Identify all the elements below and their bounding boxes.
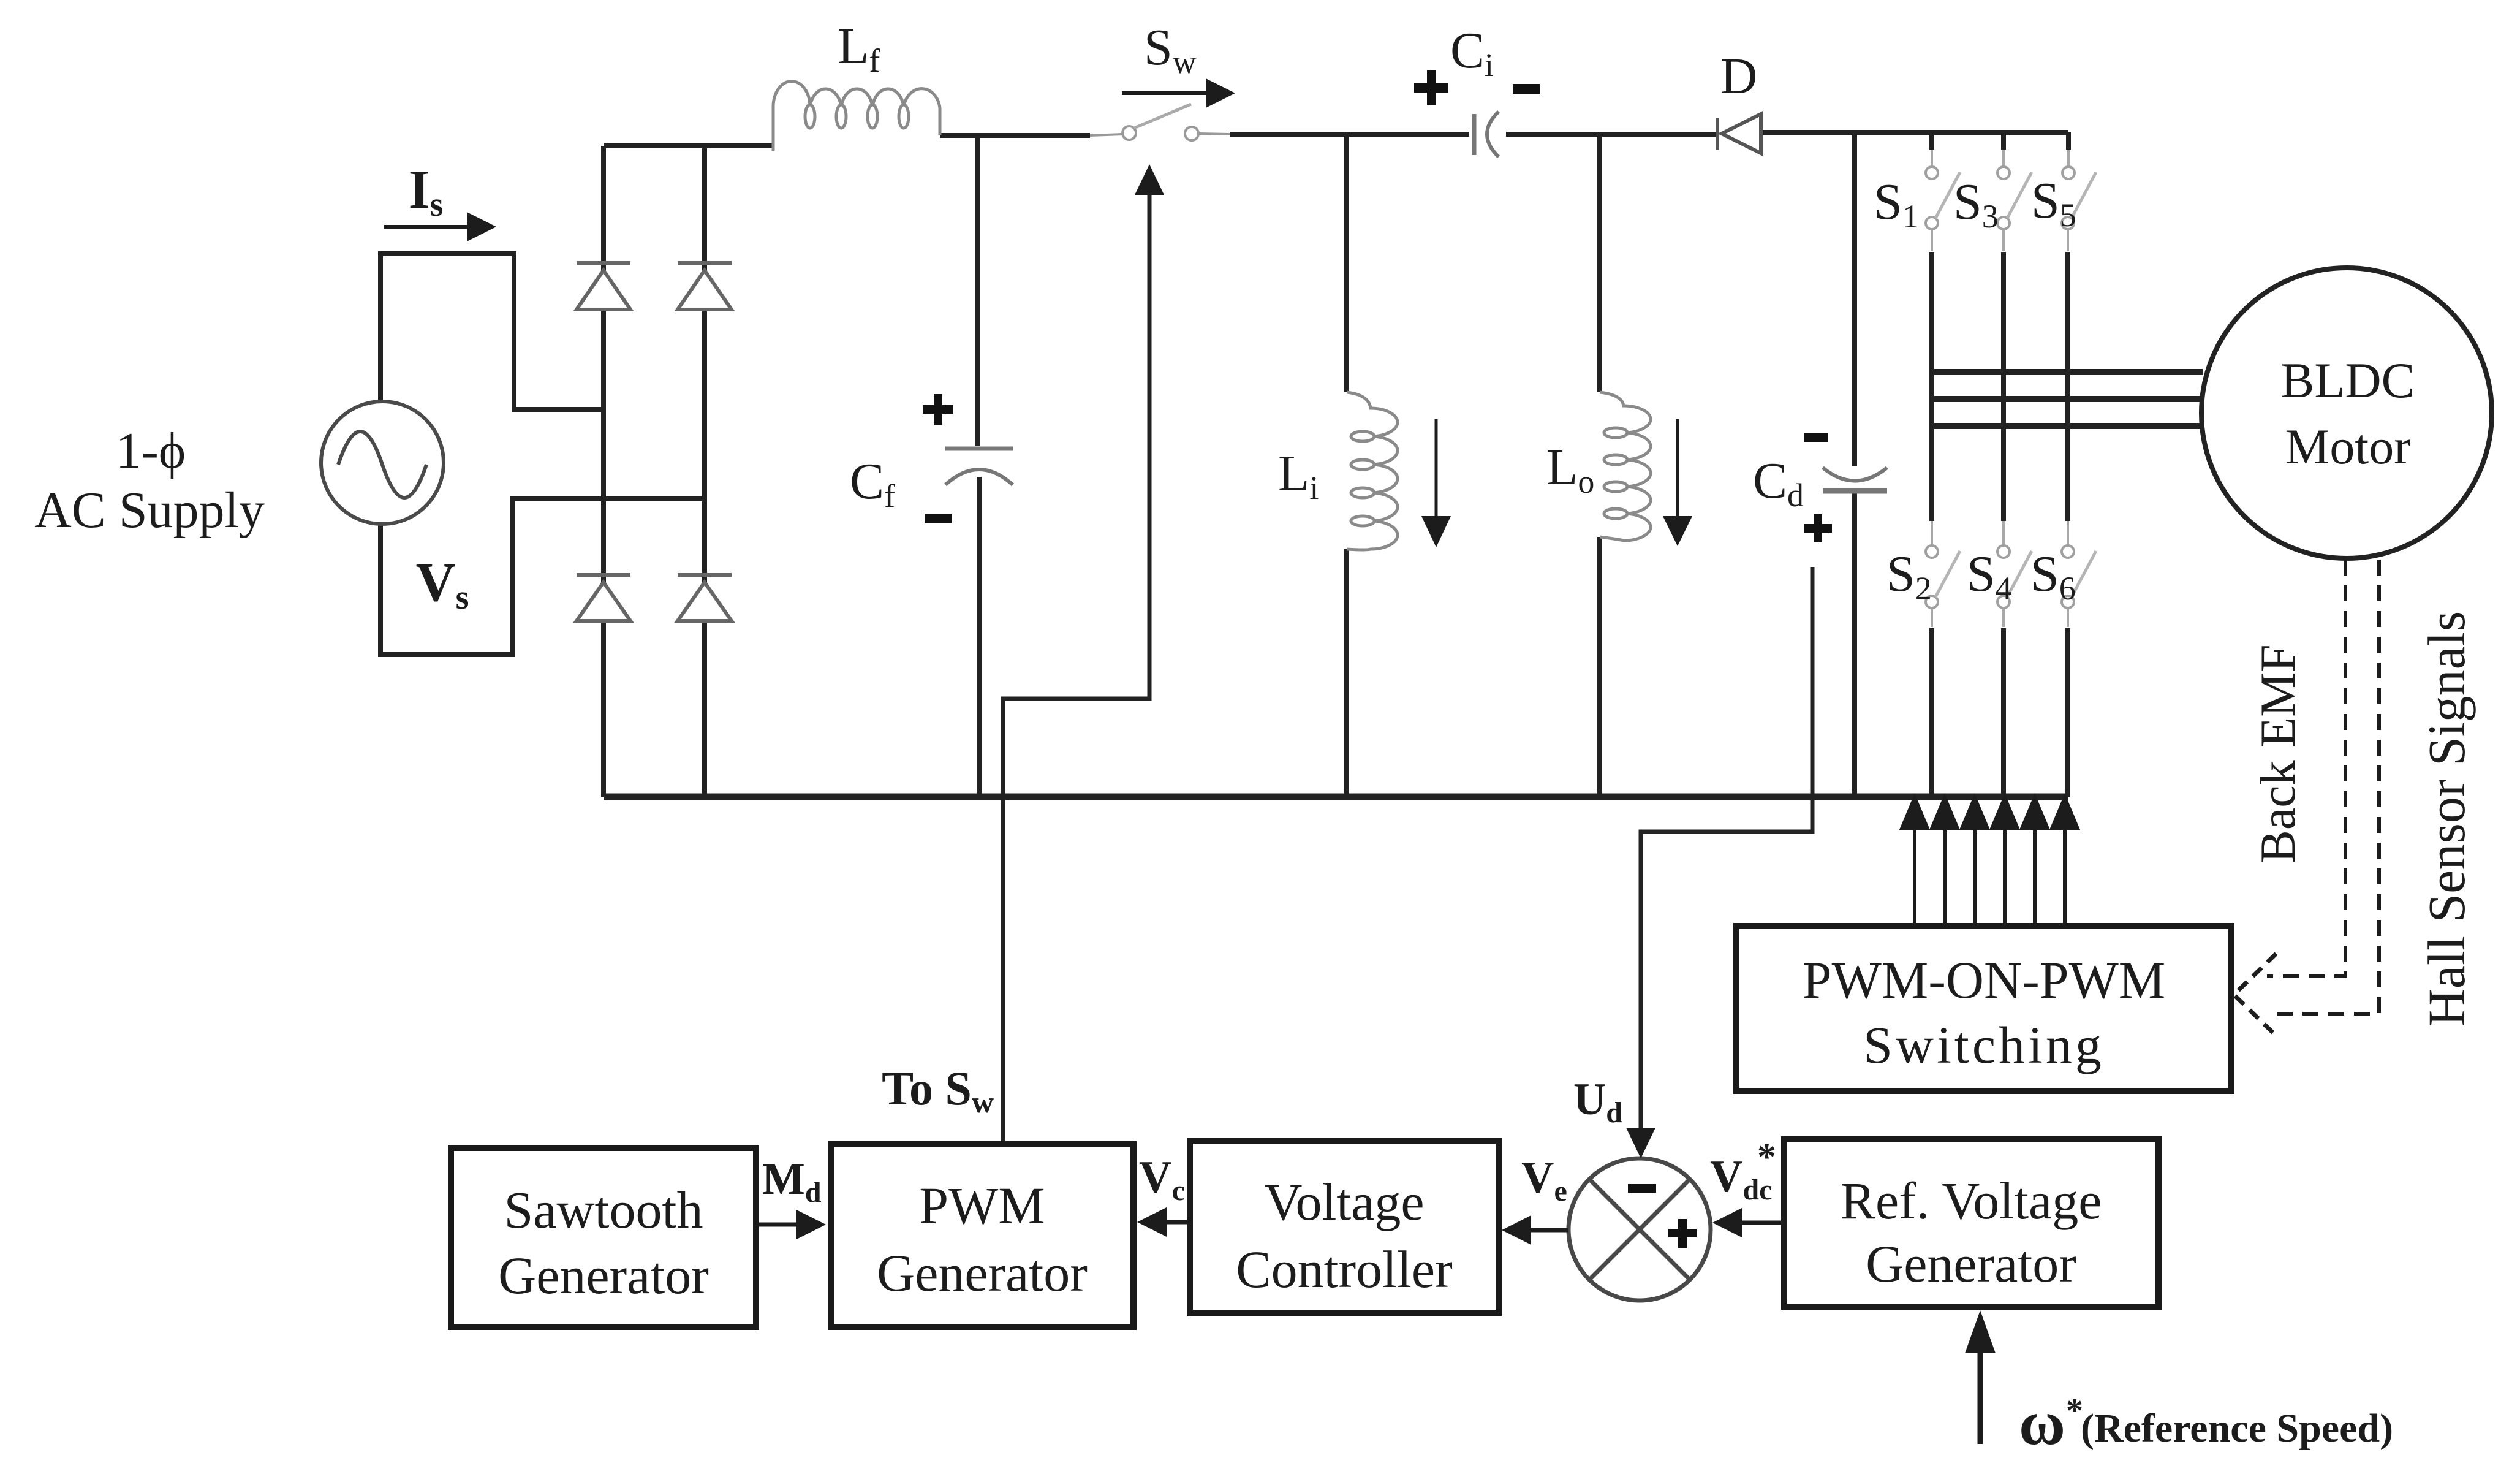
svg-text:PWM-ON-PWM: PWM-ON-PWM <box>1803 951 2165 1009</box>
svg-text:Back EMF: Back EMF <box>2250 644 2306 864</box>
svg-text:Switching: Switching <box>1863 1016 2105 1074</box>
svg-text:AC Supply: AC Supply <box>34 482 265 539</box>
svg-text:Hall Sensor Signals: Hall Sensor Signals <box>2417 611 2476 1027</box>
svg-text:(Reference Speed): (Reference Speed) <box>2081 1406 2393 1451</box>
svg-text:BLDC: BLDC <box>2281 352 2415 408</box>
svg-text:*: * <box>1757 1136 1776 1178</box>
svg-text:PWM: PWM <box>919 1176 1045 1235</box>
svg-text:Voltage: Voltage <box>1264 1172 1424 1231</box>
svg-text:Ref. Voltage: Ref. Voltage <box>1841 1171 2102 1230</box>
svg-text:Generator: Generator <box>877 1244 1088 1302</box>
svg-text:Generator: Generator <box>498 1246 709 1305</box>
svg-text:Motor: Motor <box>2285 419 2411 474</box>
svg-text:Sawtooth: Sawtooth <box>504 1180 703 1239</box>
svg-text:1-ϕ: 1-ϕ <box>116 422 186 479</box>
svg-text:ω: ω <box>2019 1388 2065 1458</box>
svg-text:D: D <box>1720 48 1758 105</box>
svg-text:Generator: Generator <box>1866 1234 2076 1293</box>
svg-text:Controller: Controller <box>1236 1240 1453 1299</box>
